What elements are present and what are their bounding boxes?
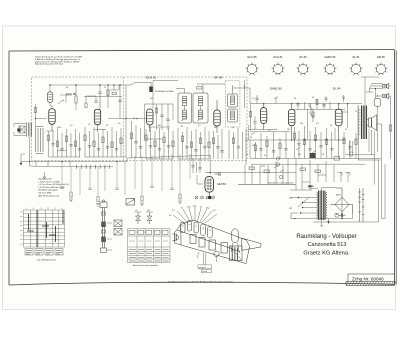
potentiometer row bbox=[33, 165, 113, 168]
svg-text:Raumklang - Vollsuper: Raumklang - Vollsuper bbox=[296, 234, 356, 240]
component cluster box A left wall bbox=[36, 127, 44, 154]
wire upper shelf bbox=[293, 108, 346, 110]
svg-text:5k: 5k bbox=[345, 129, 347, 131]
socket ECH81 bbox=[272, 63, 285, 76]
detector cluster bbox=[250, 132, 288, 159]
voltage selector bbox=[289, 197, 317, 219]
chassis left wheel bbox=[175, 235, 179, 239]
coil L5 bbox=[183, 110, 187, 119]
svg-text:ECC 85: ECC 85 bbox=[66, 92, 77, 96]
wire right top bus bbox=[245, 88, 362, 104]
trimmer arrows IF1 bbox=[181, 118, 203, 122]
primary winding bbox=[317, 192, 318, 218]
bowtie symbol 1 bbox=[135, 212, 142, 224]
svg-text:5k: 5k bbox=[181, 208, 183, 210]
svg-text:EF 89: EF 89 bbox=[300, 55, 307, 59]
tube V3 ECH81 bbox=[147, 109, 153, 132]
svg-text:2k: 2k bbox=[169, 215, 171, 217]
component cluster under V1 bbox=[46, 127, 81, 157]
svg-text:Signalspannung ueber 30% mod.: Signalspannung ueber 30% mod. bbox=[35, 63, 63, 66]
wire em80 feed bbox=[209, 155, 211, 174]
socket EABC80 bbox=[324, 63, 337, 76]
wire grid elements bbox=[146, 127, 173, 159]
tube socket diagrams top row bbox=[246, 63, 388, 76]
svg-text:1k: 1k bbox=[246, 154, 248, 156]
svg-text:Zchg Nr: 60046: Zchg Nr: 60046 bbox=[352, 277, 384, 282]
B+ line with label bbox=[238, 182, 296, 185]
EF89 stage cluster bbox=[212, 129, 223, 159]
coupling capacitor above V3 bbox=[126, 82, 153, 92]
dashed partition UKW box bbox=[123, 77, 125, 161]
wire antenna horizontals bbox=[14, 124, 26, 136]
node dots on bus bbox=[49, 84, 120, 85]
svg-text:220: 220 bbox=[289, 198, 292, 200]
svg-text:170: 170 bbox=[350, 152, 353, 154]
socket ECC85 bbox=[246, 63, 259, 76]
coil hatch antenna bbox=[27, 123, 32, 137]
svg-text:0,1: 0,1 bbox=[70, 125, 73, 127]
wire anode EL84 bbox=[342, 104, 347, 128]
svg-text:L2 Osz.-Kreis 4,8 Wdg CuL 0: L2 Osz.-Kreis 4,8 Wdg CuL 0,8 bbox=[39, 183, 70, 186]
svg-text:sw bl: sw bl bbox=[202, 271, 207, 273]
bowtie labels bbox=[136, 210, 150, 212]
drawing border frame bbox=[9, 50, 396, 285]
svg-text:0,5: 0,5 bbox=[118, 123, 121, 125]
socket labels bbox=[247, 55, 385, 59]
svg-text:EM 80: EM 80 bbox=[218, 182, 227, 186]
svg-text:1k: 1k bbox=[200, 207, 202, 209]
oscillator section outline bbox=[34, 104, 173, 139]
oscillator components bbox=[157, 104, 169, 130]
secondary winding bbox=[326, 192, 327, 218]
svg-text:7k: 7k bbox=[355, 111, 357, 113]
bridge rectifier bbox=[331, 188, 353, 219]
table footer boxes bbox=[25, 249, 63, 256]
tube V6 EABC80 triode bbox=[289, 104, 295, 140]
svg-text:ECC 85: ECC 85 bbox=[247, 55, 257, 59]
svg-text:12: 12 bbox=[104, 87, 106, 89]
tube V4 EF89 bbox=[214, 100, 220, 133]
wire slope link bbox=[127, 155, 210, 161]
svg-text:10: 10 bbox=[322, 154, 324, 156]
coil L4 bbox=[183, 97, 187, 106]
svg-text:Schaltbild gezeichnet n. d. St: Schaltbild gezeichnet n. d. Stand d. Fer… bbox=[168, 280, 233, 283]
IF transformer 2 dashed can bbox=[225, 81, 240, 128]
alignment grid table bbox=[20, 208, 65, 248]
svg-text:2k: 2k bbox=[88, 124, 90, 126]
svg-text:0,05: 0,05 bbox=[187, 207, 191, 209]
svg-text:0,5: 0,5 bbox=[316, 123, 319, 125]
coil L7 bbox=[199, 110, 203, 119]
dashed UKW/ZF chassis box bbox=[32, 77, 248, 161]
svg-text:EL 84: EL 84 bbox=[333, 87, 341, 91]
EL84 cathode cluster bbox=[338, 132, 357, 159]
svg-text:0,1: 0,1 bbox=[264, 155, 267, 157]
bottom power bus bbox=[291, 214, 353, 226]
svg-text:30: 30 bbox=[66, 87, 68, 89]
electrolytic below bridge bbox=[335, 213, 346, 217]
svg-text:220V~: 220V~ bbox=[308, 186, 314, 188]
svg-text:10: 10 bbox=[106, 125, 108, 127]
pointer arm bbox=[242, 238, 261, 250]
svg-text:Ansicht von unten gesehen: Ansicht von unten gesehen bbox=[133, 264, 159, 267]
trimmer arrow osc bbox=[58, 100, 63, 104]
socket EM80 bbox=[375, 63, 388, 76]
components above V2 bbox=[60, 95, 98, 108]
component cluster mid gap bbox=[130, 121, 142, 158]
wires tweeter network bbox=[366, 84, 383, 153]
resistor R1 bbox=[75, 96, 77, 103]
svg-text:Ratiofilter gekoppelt: Ratiofilter gekoppelt bbox=[39, 189, 59, 192]
antenna input group left of box bbox=[14, 123, 33, 167]
wire to bottom bus bbox=[30, 137, 34, 166]
switch fuse cluster bbox=[290, 141, 374, 190]
chassis label box 1 bbox=[198, 265, 212, 269]
svg-text:Spulen-Daten:: Spulen-Daten: bbox=[39, 178, 53, 181]
wire grid em80 bbox=[197, 175, 203, 184]
trimmer row above chassis bbox=[195, 196, 215, 199]
tweeter speaker lower bbox=[383, 93, 391, 99]
svg-text:ECH 81: ECH 81 bbox=[146, 76, 157, 80]
wire coil drop bbox=[50, 85, 52, 109]
wire V1 top bbox=[75, 85, 77, 110]
ferrite rod control shaft bbox=[100, 200, 112, 253]
mains transformer on chassis bbox=[230, 246, 243, 261]
svg-text:EABC 80: EABC 80 bbox=[325, 55, 336, 59]
wire right drop bbox=[125, 85, 127, 158]
wire above IF1 bbox=[176, 84, 225, 93]
small parts top bbox=[110, 85, 119, 90]
component cluster under V2 bbox=[84, 97, 126, 158]
wire drops to bottom bbox=[62, 154, 190, 196]
svg-text:EL 84: EL 84 bbox=[353, 55, 360, 59]
svg-text:50: 50 bbox=[232, 127, 234, 129]
wires right margin bbox=[377, 96, 392, 159]
hatched revision bar bbox=[346, 282, 396, 286]
svg-text:EM 80: EM 80 bbox=[377, 55, 385, 59]
capacitor box tweeter bbox=[374, 99, 380, 107]
rectifier cluster bbox=[245, 157, 288, 185]
oscillator coil above V1 bbox=[47, 92, 52, 103]
wire top bus left bbox=[50, 84, 126, 86]
wire V2 drop bbox=[99, 85, 101, 92]
svg-text:Graetz KG.Altena.: Graetz KG.Altena. bbox=[303, 250, 350, 256]
riser components upper shelf bbox=[298, 99, 330, 109]
svg-text:25: 25 bbox=[330, 125, 332, 127]
bowtie symbol 2 bbox=[146, 212, 153, 224]
coil data text block bbox=[39, 178, 70, 198]
svg-text:47k: 47k bbox=[58, 127, 61, 129]
chassis outline bbox=[175, 220, 247, 240]
tube cylinders on chassis bbox=[181, 222, 185, 233]
svg-text:0,1: 0,1 bbox=[198, 125, 201, 127]
tube V5 EABC80 diodes bbox=[261, 104, 267, 130]
svg-text:2k: 2k bbox=[294, 98, 296, 100]
tube V1 ECC85a bbox=[49, 109, 55, 131]
svg-text:ECH 81: ECH 81 bbox=[273, 55, 283, 59]
voltage table bbox=[128, 229, 171, 263]
tube V8 EM80 magic eye bbox=[205, 173, 221, 199]
svg-text:EABC 80: EABC 80 bbox=[270, 87, 282, 91]
mains lead bbox=[308, 186, 336, 191]
svg-text:L1 Ant.-Kreis 5,2 Wdg: L1 Ant.-Kreis 5,2 Wdg bbox=[39, 180, 61, 183]
svg-text:Canzonetta 513: Canzonetta 513 bbox=[308, 242, 347, 248]
svg-text:6,8: 6,8 bbox=[150, 98, 153, 100]
IF transformer 1 bbox=[176, 84, 225, 123]
svg-text:Tab. UKW geloescht: Tab. UKW geloescht bbox=[37, 258, 56, 261]
Zchg Nr box bbox=[348, 274, 395, 282]
transformer core antenna bbox=[19, 126, 25, 133]
wire af buses bbox=[245, 140, 381, 164]
svg-text:3k: 3k bbox=[250, 137, 252, 139]
component cluster under IF1 bbox=[178, 127, 210, 159]
AF network cluster bbox=[291, 95, 345, 159]
scattered value labels bbox=[58, 87, 357, 157]
socket EF89 bbox=[297, 63, 310, 76]
svg-text:B250: B250 bbox=[336, 195, 340, 197]
socket EL84 bbox=[350, 63, 363, 76]
electrolytic can bbox=[232, 229, 238, 243]
heater choke bbox=[358, 188, 365, 222]
svg-text:Alle Werte gemessen: Alle Werte gemessen bbox=[39, 194, 61, 197]
svg-text:EF 89: EF 89 bbox=[215, 76, 223, 80]
wire long af line bbox=[205, 172, 296, 174]
ECH81 stage cluster bbox=[145, 81, 178, 160]
svg-text:0,1: 0,1 bbox=[213, 210, 216, 212]
leader lines below bbox=[197, 252, 217, 265]
tweeter speaker upper bbox=[383, 83, 391, 89]
svg-text:0,2: 0,2 bbox=[268, 130, 271, 132]
chassis label box 2 bbox=[201, 269, 211, 273]
tuning capacitor symbol bbox=[126, 199, 135, 206]
svg-text:gn ge rt: gn ge rt bbox=[199, 266, 206, 269]
switch symbol boxes bbox=[114, 220, 122, 235]
svg-text:ZF 460kHz 10,7MHz: ZF 460kHz 10,7MHz bbox=[155, 91, 173, 93]
callout fan bbox=[173, 207, 217, 225]
coil L6 bbox=[199, 97, 203, 106]
tube V2 ECC85b bbox=[94, 109, 100, 132]
capacitor C1 bbox=[98, 92, 101, 110]
svg-text:50: 50 bbox=[312, 97, 314, 99]
output transformer bbox=[345, 77, 380, 160]
note text block top-left bbox=[35, 56, 82, 66]
svg-text:0,1: 0,1 bbox=[172, 210, 175, 212]
wire zf link bbox=[153, 81, 178, 110]
speaker main bbox=[367, 115, 377, 131]
right drop wires bbox=[353, 159, 386, 223]
svg-text:Netzteil von unten gesehen: Netzteil von unten gesehen bbox=[268, 182, 294, 185]
svg-text:L3 ZF-Filter 460 kHz CuLS: L3 ZF-Filter 460 kHz CuLS bbox=[39, 186, 66, 189]
tube V7 EL84 bbox=[335, 104, 342, 140]
svg-text:0,1: 0,1 bbox=[252, 98, 255, 100]
svg-text:8k: 8k bbox=[181, 126, 183, 128]
svg-text:10k: 10k bbox=[300, 123, 303, 125]
wire det lines bbox=[249, 125, 290, 140]
svg-text:125: 125 bbox=[289, 208, 292, 210]
wire bottom bus 1 bbox=[21, 161, 127, 163]
title text block bbox=[296, 234, 356, 256]
svg-text:UK 10,7 MHz: UK 10,7 MHz bbox=[39, 193, 52, 195]
svg-text:5k: 5k bbox=[133, 118, 135, 120]
arrow down bbox=[20, 158, 22, 163]
caps near em80 bbox=[193, 158, 200, 173]
front face cans bbox=[190, 235, 196, 244]
